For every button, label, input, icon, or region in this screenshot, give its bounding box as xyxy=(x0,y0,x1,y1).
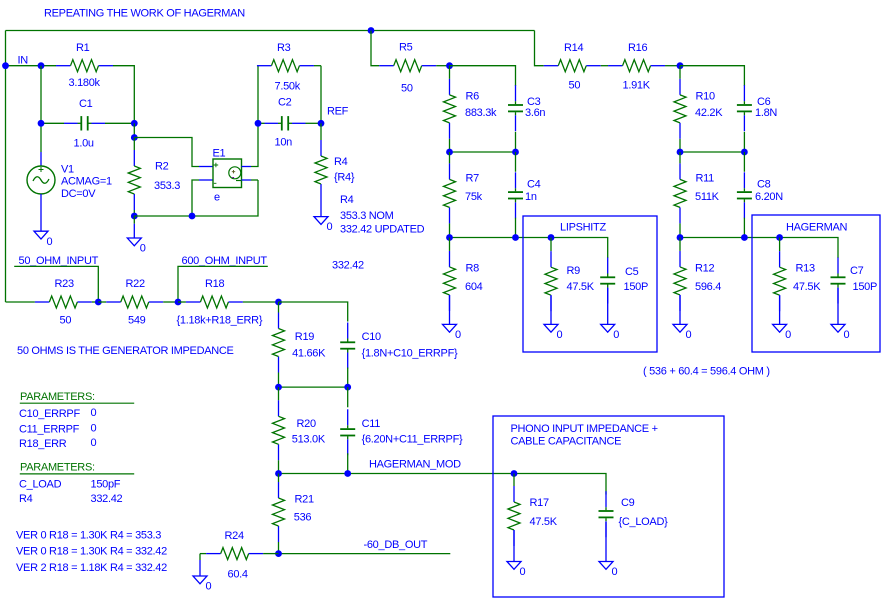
node dot row3 R7 xyxy=(446,234,453,241)
node dot E1 bottom branch xyxy=(189,213,196,220)
svg-text:R16: R16 xyxy=(628,42,647,54)
capacitor C3 xyxy=(515,85,517,101)
svg-text:332.42 UPDATED: 332.42 UPDATED xyxy=(340,223,425,235)
capacitor C11 xyxy=(347,387,349,407)
node dot IN at left border xyxy=(2,62,9,69)
svg-text:0: 0 xyxy=(612,566,618,578)
svg-text:{C_LOAD}: {C_LOAD} xyxy=(619,516,669,528)
svg-text:C10: C10 xyxy=(362,331,381,343)
svg-text:R3: R3 xyxy=(277,42,291,54)
svg-text:R18: R18 xyxy=(205,278,224,290)
svg-text:PARAMETERS:: PARAMETERS: xyxy=(20,462,95,474)
svg-text:C7: C7 xyxy=(850,265,864,277)
capacitor C5 xyxy=(607,258,609,274)
node dot R2 bottom xyxy=(131,213,138,220)
svg-text:C2: C2 xyxy=(278,97,292,109)
wire R23 to node xyxy=(92,301,98,303)
node dot mid2 R20 xyxy=(275,384,282,391)
svg-text:7.50k: 7.50k xyxy=(275,81,301,93)
wire R16 to node xyxy=(665,65,680,67)
svg-text:596.4: 596.4 xyxy=(695,281,721,293)
wire R2 column top xyxy=(133,123,135,137)
svg-text:R21: R21 xyxy=(295,494,314,506)
wire 50_OHM_INPUT stub xyxy=(14,266,98,302)
svg-text:3.6n: 3.6n xyxy=(525,107,545,119)
svg-text:513.0K: 513.0K xyxy=(292,434,326,446)
svg-text:C_LOAD: C_LOAD xyxy=(19,479,62,491)
svg-text:0: 0 xyxy=(47,236,53,248)
capacitor C1 xyxy=(41,122,64,124)
svg-text:R7: R7 xyxy=(466,173,480,185)
svg-text:0: 0 xyxy=(785,329,791,341)
node dot mid C3 xyxy=(512,149,519,156)
svg-text:1.0u: 1.0u xyxy=(74,138,94,150)
resistor R16 xyxy=(608,65,623,67)
svg-text:C8: C8 xyxy=(757,178,771,190)
wire E1 output bottom xyxy=(242,179,252,181)
resistor R22 xyxy=(98,301,106,303)
node dot C1 left xyxy=(38,120,45,127)
svg-text:R2: R2 xyxy=(155,161,169,173)
node dot HM R20 xyxy=(275,470,282,477)
resistor R14 xyxy=(544,65,559,67)
wire -60_DB_OUT row xyxy=(279,553,451,555)
svg-text:50: 50 xyxy=(60,315,72,327)
svg-text:0: 0 xyxy=(327,221,333,233)
capacitor C6 xyxy=(743,85,745,101)
svg-text:150P: 150P xyxy=(624,281,649,293)
resistor R19 xyxy=(278,302,280,313)
wire bottom row R2 to E1 loop xyxy=(134,180,258,216)
node dot row3 C8 xyxy=(741,234,748,241)
node dot mid R6 xyxy=(446,149,453,156)
svg-text:50_OHM_INPUT: 50_OHM_INPUT xyxy=(19,255,99,267)
svg-text:332.42: 332.42 xyxy=(91,493,123,505)
svg-text:47.5K: 47.5K xyxy=(567,281,595,293)
svg-text:{1.18k+R18_ERR}: {1.18k+R18_ERR} xyxy=(177,315,263,327)
node dot R22-R18 xyxy=(175,299,182,306)
resistor R1 xyxy=(56,65,71,67)
svg-text:R24: R24 xyxy=(225,530,244,542)
svg-text:E1: E1 xyxy=(213,147,226,159)
svg-text:6.20N: 6.20N xyxy=(755,191,783,203)
svg-text:353.3: 353.3 xyxy=(154,180,180,192)
svg-text:CABLE CAPACITANCE: CABLE CAPACITANCE xyxy=(511,435,622,447)
svg-text:{1.8N+C10_ERRPF}: {1.8N+C10_ERRPF} xyxy=(362,347,458,359)
wire 600_OHM_INPUT stub xyxy=(178,266,268,302)
svg-text:C11_ERRPF: C11_ERRPF xyxy=(19,424,80,436)
svg-text:1.8N: 1.8N xyxy=(755,107,777,119)
resistor R6 xyxy=(449,66,451,79)
svg-text:LIPSHITZ: LIPSHITZ xyxy=(560,222,606,234)
svg-text:353.3 NOM: 353.3 NOM xyxy=(340,210,394,222)
box HAGERMAN xyxy=(752,215,880,352)
svg-text:60.4: 60.4 xyxy=(228,569,248,581)
svg-text:50: 50 xyxy=(569,79,581,91)
wire mid row R6-C3 xyxy=(450,151,516,153)
node dot R5 right xyxy=(446,62,453,69)
wire HAGERMAN_MOD row xyxy=(279,474,607,495)
svg-text:0: 0 xyxy=(613,329,619,341)
resistor R17 xyxy=(513,474,515,487)
svg-text:0: 0 xyxy=(91,407,97,419)
ground for R24 xyxy=(199,554,201,560)
svg-text:HAGERMAN_MOD: HAGERMAN_MOD xyxy=(369,459,461,471)
wire IN row to R1 xyxy=(6,65,57,67)
node dot mid2 C11 xyxy=(344,384,351,391)
ground for R2 xyxy=(133,216,135,224)
svg-text:42.2K: 42.2K xyxy=(695,107,723,119)
ground for R4 xyxy=(320,200,322,217)
svg-text:R14: R14 xyxy=(564,42,583,54)
resistor R11 xyxy=(679,152,681,163)
svg-text:VER 0 R18 = 1.30K R4 = 353.3: VER 0 R18 = 1.30K R4 = 353.3 xyxy=(16,529,161,541)
node dot mid R10 xyxy=(677,149,684,156)
capacitor C10 xyxy=(347,323,349,339)
svg-text:R12: R12 xyxy=(695,263,714,275)
ground for R12 xyxy=(673,324,687,332)
svg-text:( 536 + 60.4 = 596.4 OHM ): ( 536 + 60.4 = 596.4 OHM ) xyxy=(643,366,770,378)
resistor R10 xyxy=(679,66,681,79)
capacitor C9 xyxy=(605,491,607,507)
node REF dot xyxy=(318,120,325,127)
svg-text:PARAMETERS:: PARAMETERS: xyxy=(20,391,95,403)
wire mid row R10-C6 xyxy=(680,151,744,153)
svg-text:883.3k: 883.3k xyxy=(465,107,497,119)
ground for R9 xyxy=(544,324,558,332)
svg-text:R23: R23 xyxy=(55,278,74,290)
ground for R8 xyxy=(443,324,457,332)
wire R22 to node xyxy=(163,301,178,303)
svg-text:3.180k: 3.180k xyxy=(69,77,101,89)
node dot R16 right xyxy=(677,62,684,69)
node dot R2 top xyxy=(131,134,138,141)
svg-text:DC=0V: DC=0V xyxy=(61,188,96,200)
wire mid2 row xyxy=(279,386,348,388)
resistor R18 xyxy=(178,301,186,303)
box PHONO INPUT xyxy=(493,416,724,597)
resistor R2 xyxy=(133,138,135,151)
svg-text:C10_ERRPF: C10_ERRPF xyxy=(19,408,80,420)
svg-text:R4: R4 xyxy=(340,194,354,206)
wire E1 output top xyxy=(242,166,252,168)
svg-text:150pF: 150pF xyxy=(91,479,121,491)
resistor R5 xyxy=(379,65,394,67)
svg-text:0: 0 xyxy=(686,329,692,341)
svg-text:50 OHMS IS THE GENERATOR IMPED: 50 OHMS IS THE GENERATOR IMPEDANCE xyxy=(17,345,234,357)
svg-text:50: 50 xyxy=(401,83,413,95)
wire row3 left segment xyxy=(450,238,608,259)
svg-text:0: 0 xyxy=(455,329,461,341)
resistor R8 xyxy=(449,238,451,251)
svg-text:C9: C9 xyxy=(621,497,635,509)
node dot R23-R22 xyxy=(95,299,102,306)
svg-text:332.42: 332.42 xyxy=(332,259,364,271)
svg-text:75k: 75k xyxy=(465,191,483,203)
node dot R18 right xyxy=(275,299,282,306)
wire to C3 column xyxy=(450,66,516,86)
capacitor C4 xyxy=(515,152,517,172)
svg-text:0: 0 xyxy=(844,329,850,341)
node dot row3 R9 xyxy=(548,234,555,241)
svg-text:1n: 1n xyxy=(525,191,537,203)
svg-text:-60_DB_OUT: -60_DB_OUT xyxy=(364,539,428,551)
resistor R23 xyxy=(35,301,50,303)
svg-text:150P: 150P xyxy=(853,281,878,293)
node dot row3 C4 xyxy=(512,234,519,241)
svg-text:VER 2 R18 = 1.18K R4 = 332.42: VER 2 R18 = 1.18K R4 = 332.42 xyxy=(16,562,167,574)
wire R19 row to C10 column xyxy=(279,302,348,322)
svg-text:PHONO INPUT IMPEDANCE +: PHONO INPUT IMPEDANCE + xyxy=(511,423,658,435)
resistor R7 xyxy=(449,152,451,163)
svg-text:536: 536 xyxy=(294,511,312,523)
wire R18 to node xyxy=(243,301,279,303)
svg-text:R20: R20 xyxy=(297,418,316,430)
source V1 xyxy=(40,152,42,166)
resistor R21 xyxy=(278,474,280,483)
svg-text:C5: C5 xyxy=(625,266,639,278)
svg-text:REPEATING THE WORK OF HAGERMAN: REPEATING THE WORK OF HAGERMAN xyxy=(44,7,245,19)
svg-text:47.5K: 47.5K xyxy=(530,516,558,528)
resistor R4 xyxy=(320,123,322,140)
svg-text:R5: R5 xyxy=(399,42,413,54)
node dot C1 right xyxy=(131,120,138,127)
wire top junction down to R5 xyxy=(371,31,379,66)
svg-text:C4: C4 xyxy=(527,178,541,190)
svg-text:0: 0 xyxy=(206,581,212,593)
svg-text:0: 0 xyxy=(557,329,563,341)
svg-text:47.5K: 47.5K xyxy=(793,281,821,293)
svg-text:0: 0 xyxy=(91,423,97,435)
node dot HM C11 xyxy=(344,470,351,477)
ground for C7 xyxy=(831,324,845,332)
wire R5 to junction xyxy=(436,65,449,67)
svg-text:0: 0 xyxy=(140,243,146,255)
node dot mid C6 xyxy=(741,149,748,156)
ground for C9 xyxy=(599,562,613,570)
svg-text:R17: R17 xyxy=(530,497,549,509)
svg-text:HAGERMAN: HAGERMAN xyxy=(786,222,848,234)
wire left border xyxy=(5,31,7,303)
node dot V1 branch xyxy=(38,62,45,69)
svg-text:10n: 10n xyxy=(275,137,293,149)
svg-text:R11: R11 xyxy=(696,173,715,185)
svg-text:REF: REF xyxy=(327,106,349,118)
svg-text:e: e xyxy=(214,192,220,204)
node dot C2 left xyxy=(255,120,262,127)
svg-text:R6: R6 xyxy=(466,90,480,102)
node dot out row xyxy=(275,550,282,557)
wire left border to R23 xyxy=(6,301,35,303)
svg-text:604: 604 xyxy=(465,281,483,293)
resistor R24 xyxy=(200,553,206,555)
node dot row3 R11 xyxy=(677,234,684,241)
resistor R20 xyxy=(278,387,280,400)
svg-text:R18_ERR: R18_ERR xyxy=(19,438,67,450)
capacitor C2 xyxy=(258,122,265,124)
wire E1 input bottom xyxy=(199,179,213,181)
svg-text:R22: R22 xyxy=(126,278,145,290)
resistor R12 xyxy=(679,238,681,251)
capacitor C8 xyxy=(743,152,745,172)
svg-text:{R4}: {R4} xyxy=(334,171,355,183)
svg-text:0: 0 xyxy=(91,437,97,449)
svg-text:41.66K: 41.66K xyxy=(292,347,326,359)
wire V1 column upper xyxy=(40,66,42,152)
ground for R17 xyxy=(507,562,521,570)
svg-text:C1: C1 xyxy=(79,98,93,110)
svg-text:V1: V1 xyxy=(61,164,74,176)
svg-text:600_OHM_INPUT: 600_OHM_INPUT xyxy=(182,255,268,267)
wire top bus right corner down xyxy=(535,31,544,66)
resistor R13 xyxy=(779,238,781,252)
svg-text:R10: R10 xyxy=(696,90,715,102)
svg-text:IN: IN xyxy=(18,54,29,66)
svg-text:511K: 511K xyxy=(695,191,720,203)
svg-text:549: 549 xyxy=(128,315,146,327)
svg-text:R9: R9 xyxy=(567,265,581,277)
capacitor C7 xyxy=(837,258,839,274)
svg-text:1.91K: 1.91K xyxy=(623,79,651,91)
node dot top bus junction xyxy=(368,27,375,34)
svg-text:R19: R19 xyxy=(295,331,314,343)
wire R3 loop left vertical xyxy=(257,66,259,124)
resistor R3 xyxy=(257,65,272,67)
resistor R9 xyxy=(550,238,552,252)
wire R3 right vertical xyxy=(320,66,322,124)
svg-text:C11: C11 xyxy=(362,418,381,430)
node dot HM R17 xyxy=(511,470,518,477)
wire R14 to R16 xyxy=(601,65,608,67)
ground for R13 xyxy=(773,324,787,332)
svg-text:{6.20N+C11_ERRPF}: {6.20N+C11_ERRPF} xyxy=(362,434,463,446)
wire E1 input top xyxy=(134,138,199,167)
ground for C5 xyxy=(601,324,615,332)
node dot row3 R13 xyxy=(776,234,783,241)
wire row3 right segment xyxy=(680,238,838,259)
wire top bus xyxy=(6,30,535,32)
ground for V1 xyxy=(40,194,42,231)
wire R1 to right corner down to C1 row xyxy=(113,66,134,124)
svg-text:R1: R1 xyxy=(76,42,90,54)
svg-text:ACMAG=1: ACMAG=1 xyxy=(61,176,112,188)
op-amp dependent source E1 xyxy=(213,159,242,188)
svg-text:R4: R4 xyxy=(334,156,348,168)
svg-text:R13: R13 xyxy=(796,263,815,275)
svg-text:0: 0 xyxy=(520,566,526,578)
wire to C6 column xyxy=(680,66,744,86)
box LIPSHITZ xyxy=(523,216,657,352)
svg-text:R8: R8 xyxy=(466,263,480,275)
svg-text:VER 0 R18 = 1.30K R4 = 332.42: VER 0 R18 = 1.30K R4 = 332.42 xyxy=(16,546,167,558)
svg-text:R4: R4 xyxy=(19,493,33,505)
